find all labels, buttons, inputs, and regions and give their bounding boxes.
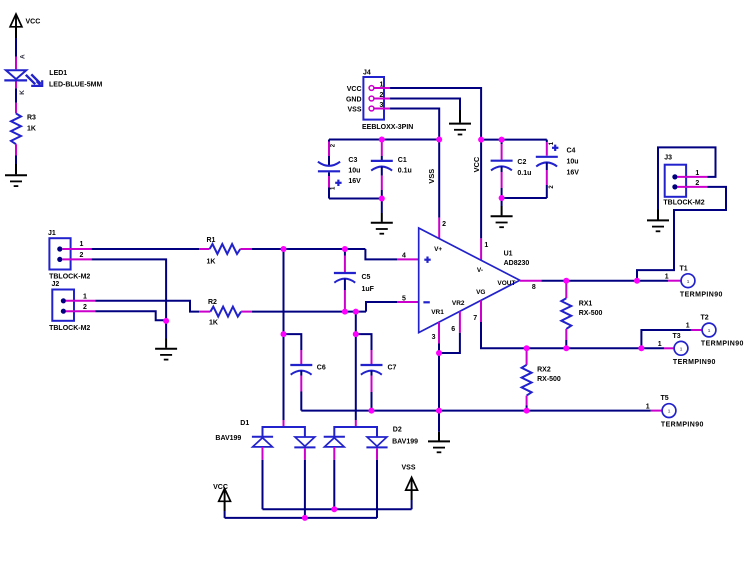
svg-text:BAV199: BAV199 [215,435,241,442]
terminal T3 TERMPIN90 [658,333,716,366]
capacitor C4 10u 16V [536,140,579,198]
junction VSS rail / VSS column [436,137,442,143]
op-amp U1 pin 2 lead [439,218,446,239]
D1 left lead [262,447,264,509]
capacitor C5 1uF [334,249,375,312]
capacitor C1 0.1u [371,140,412,199]
svg-text:GND: GND [346,96,362,103]
svg-text:1: 1 [695,170,699,177]
wire VCC column (net VCC) [472,140,481,239]
wire step down to pin4 [365,249,397,259]
svg-text:2: 2 [695,180,699,187]
svg-text:1K: 1K [209,320,218,327]
wire to C6 [284,334,302,350]
svg-text:D2: D2 [393,427,402,434]
wire C2 bottom to ground [501,198,503,215]
resistor R2 1K [199,299,252,327]
wire C3 bottom to C1 bottom [329,198,382,200]
junction C1/C3 bottom [379,196,385,202]
op-amp U1 pin 5 lead [397,295,418,302]
svg-text:VSS: VSS [402,465,416,472]
svg-text:VG: VG [476,289,485,296]
capacitor C3 10u 16V [318,140,361,199]
svg-text:4: 4 [402,252,406,259]
svg-text:1: 1 [380,82,384,89]
op-amp U1 AD8230 [419,228,530,333]
svg-text:V-: V- [477,267,483,274]
svg-text:10u: 10u [567,159,579,166]
connector J3 TBLOCK-M2 [663,154,707,206]
svg-text:K: K [19,90,26,95]
svg-text:T2: T2 [701,315,709,322]
wire VSS column (net VSS) [427,140,439,218]
svg-text:1: 1 [665,273,669,280]
svg-text:VOUT: VOUT [497,280,515,287]
svg-text:2: 2 [80,252,84,259]
wire pin6 to pin3 node [439,333,460,353]
svg-text:1uF: 1uF [362,286,375,293]
svg-text:LED1: LED1 [49,70,67,77]
wire J1 pin2 to ground node [92,259,167,321]
LED1 cathode pin (K) [16,82,26,95]
svg-text:RX2: RX2 [537,367,551,374]
svg-text:VCC: VCC [26,19,41,26]
power symbol VCC (bottom) [213,484,230,518]
svg-text:1: 1 [686,323,690,330]
wire bottom rail (C6 to T5) [301,410,651,412]
wire J2 pin1 to R2 [95,301,199,312]
D2 right lead [376,448,378,518]
connector J4 EEBLOXX-3PIN [346,70,413,131]
svg-text:2: 2 [442,221,446,228]
ground (below C1/C3) [371,223,393,234]
svg-text:1: 1 [83,293,87,300]
wire VCC bottom rail [225,517,377,519]
wire VCC rail (VCC column to C4) [481,139,547,141]
capacitor C7 [361,350,397,411]
power symbol VSS (bottom) [402,465,418,510]
svg-text:7: 7 [473,315,477,322]
ground (J3) [647,220,669,231]
svg-text:VR1: VR1 [431,309,444,316]
connector J2 TBLOCK-M2 [49,281,95,332]
svg-text:16V: 16V [348,178,361,185]
svg-text:3: 3 [380,102,384,109]
op-amp U1 pin 4 lead [397,252,418,259]
svg-text:VCC: VCC [472,156,481,172]
wire (black) into ground J1/J2 [165,339,167,348]
svg-text:C1: C1 [398,157,407,164]
wire VOUT to T1 [541,280,668,282]
wire J2 pin2 to ground node [95,311,166,320]
wire into D2 (pin lead) [355,420,357,427]
svg-text:C7: C7 [388,365,397,372]
junction RX1 top [563,278,569,284]
junction R2 line / D2 column [353,309,359,315]
svg-text:TBLOCK-M2: TBLOCK-M2 [49,273,90,280]
wire R3 to ground [15,156,17,175]
svg-text:T5: T5 [661,395,669,402]
power symbol VCC (top-left) [10,14,40,38]
svg-text:J3: J3 [664,154,672,161]
svg-text:2: 2 [549,185,555,189]
svg-text:T3: T3 [673,333,681,340]
svg-text:R1: R1 [207,237,216,244]
junction C2/C4 bottom [499,195,505,201]
svg-text:TERMPIN90: TERMPIN90 [661,421,704,428]
wire C1 bottom to ground [381,199,383,222]
svg-text:J2: J2 [52,281,60,288]
svg-text:0.1u: 0.1u [398,168,412,175]
op-amp U1 pin 6 lead [451,311,460,333]
svg-text:VR2: VR2 [452,300,465,307]
terminal T1 TERMPIN90 [665,265,723,298]
junction C5 top [342,246,348,252]
svg-text:VSS: VSS [347,106,361,113]
svg-text:10u: 10u [348,168,360,175]
junction VCC rail / VCC column [478,137,484,143]
svg-text:6: 6 [451,326,455,333]
junction C7 branch [353,331,359,337]
diode D1 BAV199 [215,420,315,447]
svg-text:TBLOCK-M2: TBLOCK-M2 [49,325,90,332]
resistor RX2 RX-500 [522,348,561,410]
D2 left lead [333,447,335,509]
wire rail to ground [438,411,440,432]
svg-text:2: 2 [380,92,384,99]
svg-text:D1: D1 [240,420,249,427]
junction RX2 top [524,345,530,351]
resistor R1 1K [199,237,252,266]
svg-text:LED-BLUE-5MM: LED-BLUE-5MM [49,81,102,88]
svg-text:1: 1 [658,341,662,348]
svg-text:C4: C4 [567,148,576,155]
ground (J4 pin2) [449,124,471,135]
wire J4 pin2 to ground [390,99,460,111]
svg-text:R3: R3 [27,115,36,122]
junction R1 line / D1 column [281,246,287,252]
wire D1 column (R1 node down) [283,249,285,420]
wire pin3 down [438,344,440,354]
svg-text:U1: U1 [504,251,513,258]
junction pin3/pin6 node [436,350,442,356]
D1 right lead [304,448,306,518]
svg-text:J1: J1 [48,230,56,237]
junction RX2 bottom on rail [524,408,530,414]
svg-text:C6: C6 [317,365,326,372]
op-amp U1 pin 8 lead (VOUT) [520,281,542,291]
svg-text:1K: 1K [207,259,216,266]
resistor R3 1K [11,103,36,156]
svg-text:1K: 1K [27,126,36,133]
wire VG rail to T3 [527,347,664,349]
junction J1.2/J2.2 ground node [163,318,169,324]
wire pin7 down to VG rail [481,322,527,348]
wire LED1 to R3 [15,88,17,103]
wire to C7 [356,334,372,350]
terminal T5 TERMPIN90 [646,395,704,428]
junction T2/T3 branch [638,345,644,351]
op-amp U1 pin 7 lead [473,300,481,322]
svg-text:5: 5 [402,295,406,302]
wire into D1 (pin lead) [283,420,285,427]
terminal T2 TERMPIN90 [686,315,744,348]
wire step up to pin5 [366,302,397,312]
wire J4 pin1 to VCC rail [390,88,481,140]
svg-text:RX1: RX1 [579,301,593,308]
wire R1 to op-amp pin4 node [252,248,365,250]
svg-text:RX-500: RX-500 [537,376,561,383]
svg-text:1: 1 [330,186,336,190]
wire J3 pin2 to VOUT node [637,187,726,281]
wire (black) into bottom ground [438,432,440,441]
svg-text:TBLOCK-M2: TBLOCK-M2 [663,199,704,206]
wire pin3 node to bottom rail [438,353,440,411]
ground (below R3) [5,175,27,186]
junction D1 right on VCC rail [302,515,308,521]
svg-text:1: 1 [549,141,555,145]
junction D2 left on VSS rail [331,506,337,512]
svg-text:0.1u: 0.1u [517,170,531,177]
junction pin3 column / ground on rail [436,408,442,414]
svg-text:3: 3 [432,334,436,341]
junction RX1 bottom [563,345,569,351]
junction C7 bottom on rail [369,408,375,414]
svg-text:A: A [19,54,26,59]
wire R2 to op-amp pin5 node [252,311,366,313]
wire branch up to T2 [641,330,691,348]
junction C5 bottom [342,309,348,315]
wire VCC to LED1 anode [15,38,17,57]
capacitor C6 [290,350,326,411]
svg-text:TERMPIN90: TERMPIN90 [701,341,744,348]
wire J1 pin1 to R1 [92,248,200,250]
junction J3 branch on VOUT [634,278,640,284]
junction C6 branch [281,331,287,337]
svg-text:1: 1 [484,242,488,249]
svg-text:VSS: VSS [427,169,436,184]
wire (black) into ground below J4 pin2 [459,110,461,123]
svg-text:BAV199: BAV199 [392,439,418,446]
wire J4 pin3 to VSS rail [390,109,439,140]
connector J1 TBLOCK-M2 [48,230,92,280]
svg-text:RX-500: RX-500 [579,310,603,317]
ground (J1/J2) [155,349,177,360]
op-amp U1 pin 3 lead [432,322,439,343]
svg-text:C5: C5 [362,274,371,281]
op-amp U1 pin 1 lead [481,238,488,260]
wire J3 pin1 to ground loop [658,147,716,209]
svg-text:R2: R2 [208,299,217,306]
svg-text:AD8230: AD8230 [504,260,530,267]
LED1 anode pin (A) [16,54,26,69]
wire C4 bottom to C2 bottom [502,197,547,199]
capacitor C2 0.1u [491,140,532,198]
svg-text:EEBLOXX-3PIN: EEBLOXX-3PIN [362,124,413,131]
wire VSS rail (C3 top to VSS column) [329,139,439,141]
junction C1 top on VSS rail [379,137,385,143]
ground (bottom rail) [428,441,450,452]
svg-text:2: 2 [83,304,87,311]
svg-text:16V: 16V [567,170,580,177]
svg-text:VCC: VCC [347,86,362,93]
svg-text:8: 8 [532,284,536,291]
svg-text:V+: V+ [434,246,442,253]
svg-text:1: 1 [646,403,650,410]
resistor RX1 RX-500 [561,281,602,349]
diode D2 BAV199 [324,427,418,448]
svg-text:1: 1 [80,241,84,248]
svg-text:TERMPIN90: TERMPIN90 [680,291,723,298]
ground (below C2/C4) [491,216,513,227]
svg-text:TERMPIN90: TERMPIN90 [673,359,716,366]
wire ground node down [165,321,167,339]
svg-text:C3: C3 [348,157,357,164]
svg-text:2: 2 [330,143,336,147]
wire (black) into ground J3 [657,210,659,220]
wire VSS bottom rail [263,508,412,510]
wire D2 column (R2 node down) [355,312,357,420]
svg-text:J4: J4 [363,70,371,77]
led LED1 [4,70,102,88]
svg-text:T1: T1 [680,265,688,272]
junction C2 top [499,137,505,143]
svg-text:C2: C2 [517,159,526,166]
